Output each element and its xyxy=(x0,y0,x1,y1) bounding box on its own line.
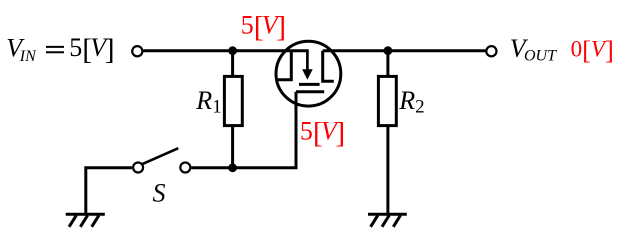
transistor Q1 channel dash xyxy=(299,83,320,86)
svg-text:0[V]: 0[V] xyxy=(571,35,614,65)
wire top rail right (transistor to VOUT) xyxy=(323,49,486,52)
ground right xyxy=(368,214,407,227)
node VIN terminal xyxy=(132,46,142,56)
resistor R2 xyxy=(378,76,396,125)
wire R1 bottom lead xyxy=(231,126,234,168)
transistor Q1 drain contact xyxy=(277,51,291,80)
svg-text:S: S xyxy=(153,178,166,207)
wire switch right contact to junction xyxy=(191,166,232,169)
wire R2 top lead xyxy=(386,51,389,77)
wire gate row (junction to gate corner) xyxy=(233,92,296,168)
ground left xyxy=(66,214,105,227)
label VIN xyxy=(6,34,37,65)
svg-text:OUT: OUT xyxy=(524,48,557,65)
svg-text:IN: IN xyxy=(19,48,37,65)
transistor Q1 body circle xyxy=(276,41,341,106)
node gate-top junction dot xyxy=(228,46,237,55)
switch S blade xyxy=(142,148,179,164)
node VOUT terminal xyxy=(486,46,496,56)
label equals sign xyxy=(46,47,64,52)
wire top rail left (VIN to transistor) xyxy=(143,49,308,52)
label VOUT xyxy=(510,34,557,65)
svg-text:5[V]: 5[V] xyxy=(241,10,286,43)
svg-text:R2: R2 xyxy=(398,86,424,118)
switch S left contact xyxy=(133,163,143,173)
switch S right contact xyxy=(180,163,190,173)
wire R2 bottom lead xyxy=(386,126,389,215)
svg-text:5[V]: 5[V] xyxy=(69,33,114,66)
svg-text:R1: R1 xyxy=(195,86,221,118)
wire switch left contact to ground xyxy=(86,168,132,215)
node R2 junction dot xyxy=(384,46,393,55)
node gate junction dot xyxy=(228,163,237,172)
resistor R1 xyxy=(224,76,242,125)
wire R1 top lead xyxy=(231,51,234,77)
transistor Q1 body arrow xyxy=(302,51,313,80)
transistor Q1 source contact xyxy=(323,51,334,81)
transistor Q1 gate bar xyxy=(296,90,324,93)
svg-text:5[V]: 5[V] xyxy=(300,117,345,150)
